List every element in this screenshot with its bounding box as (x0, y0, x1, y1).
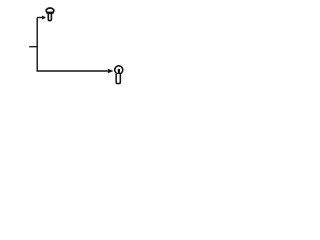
wire vertical segment (36, 18, 38, 72)
bottom screw terminal: slot (118, 69, 120, 73)
top screw terminal: slot (46, 12, 53, 14)
top screw terminal: head (46, 8, 54, 13)
arrowhead into top screw (42, 16, 46, 20)
wire top horizontal segment (37, 17, 42, 19)
wire bottom horizontal segment (37, 70, 108, 72)
top screw terminal: body (48, 14, 51, 21)
arrowhead into bottom screw (108, 69, 114, 74)
bottom screw terminal: head (115, 66, 123, 74)
bottom screw terminal: body (116, 74, 120, 84)
stub tick on vertical wire (29, 46, 37, 48)
